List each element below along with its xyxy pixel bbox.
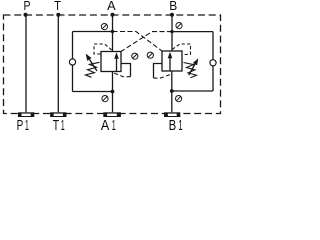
wire right bypass vertical [212, 32, 214, 91]
drain pilot V2 dashed [154, 74, 172, 78]
wire B line upper [171, 15, 173, 51]
node A outlet junction [111, 90, 115, 94]
gauge point near A top [101, 24, 107, 30]
spring V1 [86, 62, 100, 77]
node B pilot junction [170, 30, 173, 33]
wire right bypass bottom [172, 90, 213, 92]
port label A [107, 0, 116, 13]
gauge point mid left [132, 53, 138, 59]
port connector B1 [164, 112, 180, 117]
gauge point near B top [176, 23, 182, 29]
relief valve V1 body [101, 52, 121, 72]
wire right bypass top [172, 31, 213, 33]
wire B line lower [171, 71, 173, 112]
node T [56, 13, 60, 17]
drain loop V2 [154, 64, 163, 79]
wire left bypass top [73, 31, 113, 33]
node A [111, 13, 115, 17]
pilot line V2 loop [172, 44, 190, 55]
wire A line upper [112, 15, 114, 52]
wire T line [57, 15, 59, 112]
svg-text:A: A [107, 0, 116, 13]
relief valve V2 flow arrow [168, 52, 173, 71]
port label T [54, 0, 61, 13]
port label P [24, 0, 31, 13]
node P [24, 13, 28, 17]
pilot line A to V2 (cross) [113, 32, 163, 52]
port connector P1 [18, 112, 34, 117]
gauge point mid right [147, 52, 153, 58]
gauge point near B bottom [176, 96, 182, 102]
svg-text:T: T [54, 0, 61, 13]
wire left bypass bottom [73, 91, 113, 93]
adjustment arrow V1 [86, 54, 97, 71]
relief valve V2 body [162, 51, 182, 71]
port label B [169, 0, 177, 13]
wire P line [25, 15, 27, 112]
adjustment arrow V2 [189, 58, 199, 75]
node B [170, 13, 174, 17]
port connector T1 [50, 112, 66, 117]
svg-text:P1: P1 [17, 117, 29, 131]
pilot line V1 loop [94, 44, 112, 54]
port label B1 [169, 117, 183, 134]
spring V2 [184, 63, 197, 78]
drain loop V1 [121, 64, 131, 77]
node A pilot junction [111, 30, 114, 33]
svg-text:P: P [24, 0, 31, 13]
orifice left bypass [69, 59, 75, 65]
port connector A1 [103, 112, 121, 117]
pilot line B to V1 (cross) [121, 32, 172, 52]
port label T1 [53, 117, 65, 134]
port label P1 [17, 117, 29, 134]
orifice right bypass [210, 60, 216, 66]
port label A1 [101, 117, 116, 134]
svg-text:T1: T1 [53, 117, 65, 131]
svg-text:A1: A1 [101, 117, 116, 131]
relief valve V1 flow arrow [114, 52, 119, 71]
svg-text:B: B [169, 0, 177, 13]
gauge point near A bottom [102, 96, 108, 102]
node B outlet junction [170, 89, 174, 93]
enclosure dashed border [4, 15, 221, 114]
wire A line lower [112, 72, 114, 113]
drain pilot V1 dashed [113, 73, 131, 78]
wire left bypass vertical [72, 32, 74, 92]
svg-text:B1: B1 [169, 117, 183, 131]
